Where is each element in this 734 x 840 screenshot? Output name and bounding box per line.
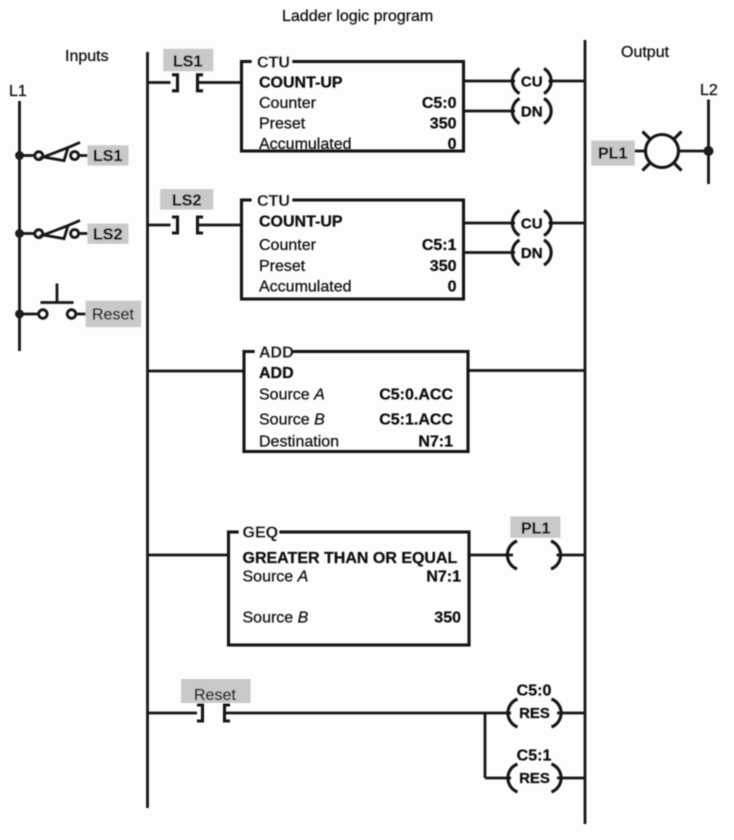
- coil RES C5:0: [508, 699, 561, 727]
- svg-text:L2: L2: [700, 82, 718, 99]
- wire rung1 left: [148, 81, 171, 84]
- label PL1 (output): [591, 141, 635, 166]
- svg-text:CU: CU: [521, 216, 543, 233]
- node Reset junction: [15, 310, 24, 319]
- wire block to CU coil: [464, 80, 516, 83]
- svg-text:Output: Output: [621, 44, 670, 61]
- svg-text:350: 350: [430, 116, 457, 133]
- label Reset (input): [86, 301, 142, 328]
- wire rung3 right: [468, 369, 585, 372]
- right ladder rail: [584, 40, 587, 824]
- svg-text:Inputs: Inputs: [65, 48, 109, 65]
- svg-text:LS1: LS1: [93, 148, 122, 165]
- wire PL1 coil to rail: [557, 554, 586, 557]
- svg-text:RES: RES: [519, 705, 550, 722]
- coil DN (rung1): [512, 99, 551, 124]
- wire rung1 to block: [198, 81, 242, 84]
- wire rung2 to block: [198, 224, 242, 227]
- node LS1 junction: [15, 151, 24, 160]
- wire branch vertical: [484, 713, 487, 778]
- wire RES C5:1 to rail: [557, 777, 585, 780]
- wire rung5 left: [148, 712, 198, 715]
- counter block CTU C5:0: [242, 54, 464, 153]
- contact LS2: [172, 217, 203, 233]
- svg-text:Counter: Counter: [259, 237, 317, 254]
- svg-text:PL1: PL1: [598, 146, 627, 163]
- limit switch LS1: [22, 142, 88, 160]
- svg-text:Source A: Source A: [259, 387, 325, 404]
- node L2 junction: [704, 146, 714, 156]
- svg-text:L1: L1: [9, 83, 27, 100]
- coil PL1: [507, 541, 560, 569]
- wire branch to RES C5:1: [485, 777, 511, 780]
- svg-text:CTU: CTU: [257, 55, 290, 72]
- coil CU (rung1): [512, 69, 551, 94]
- wire block to CU coil rung2: [464, 222, 516, 225]
- svg-text:Accumulated: Accumulated: [259, 136, 352, 153]
- svg-text:C5:1: C5:1: [517, 748, 552, 765]
- math block ADD: [244, 344, 468, 452]
- svg-text:350: 350: [430, 258, 457, 275]
- coil DN (rung2): [512, 240, 551, 265]
- svg-text:Accumulated: Accumulated: [259, 279, 352, 296]
- wire rung3 left: [148, 370, 245, 373]
- wire CU coil to rail rung2: [549, 222, 586, 225]
- svg-text:ADD: ADD: [259, 365, 294, 382]
- svg-text:N7:1: N7:1: [418, 434, 453, 451]
- wire block to DN coil rung2: [464, 251, 516, 254]
- svg-text:C5:0: C5:0: [517, 683, 552, 700]
- svg-text:LS2: LS2: [172, 193, 201, 210]
- svg-text:Source A: Source A: [243, 569, 309, 586]
- label LS1 (input): [88, 145, 129, 165]
- wire RES C5:0 to rail: [557, 712, 585, 715]
- svg-text:Ladder logic program: Ladder logic program: [282, 8, 433, 25]
- svg-text:COUNT-UP: COUNT-UP: [259, 214, 343, 231]
- svg-text:Preset: Preset: [259, 258, 306, 275]
- wire rung4 left: [148, 554, 229, 557]
- counter block CTU C5:1: [242, 193, 464, 299]
- svg-text:Preset: Preset: [259, 116, 306, 133]
- svg-text:Source B: Source B: [259, 412, 325, 429]
- coil RES C5:1: [508, 764, 561, 792]
- svg-text:RES: RES: [519, 770, 550, 787]
- svg-text:CU: CU: [521, 74, 543, 91]
- svg-text:N7:1: N7:1: [426, 569, 461, 586]
- coil CU (rung2): [512, 211, 551, 236]
- svg-text:COUNT-UP: COUNT-UP: [259, 75, 343, 92]
- L2 supply rail: [707, 100, 710, 185]
- svg-text:PL1: PL1: [521, 521, 550, 538]
- svg-text:350: 350: [434, 610, 461, 627]
- svg-text:Source B: Source B: [243, 610, 309, 627]
- svg-text:Destination: Destination: [259, 434, 339, 451]
- svg-text:Counter: Counter: [259, 95, 317, 112]
- svg-text:Reset: Reset: [92, 307, 134, 324]
- svg-text:Reset: Reset: [194, 687, 236, 704]
- svg-text:C5:1.ACC: C5:1.ACC: [379, 412, 453, 429]
- label Reset (rung5): [181, 679, 251, 704]
- svg-text:LS1: LS1: [173, 54, 202, 71]
- svg-text:GREATER THAN OR EQUAL: GREATER THAN OR EQUAL: [243, 550, 458, 567]
- svg-text:ADD: ADD: [259, 345, 294, 362]
- svg-text:C5:1: C5:1: [422, 237, 457, 254]
- wire rung2 left: [148, 224, 171, 227]
- node LS2 junction: [15, 229, 24, 238]
- wire rung5 to RES coil: [225, 712, 512, 715]
- svg-text:0: 0: [448, 279, 457, 296]
- label LS1 (rung1): [163, 49, 213, 72]
- wire block to PL1 coil: [469, 554, 513, 557]
- compare block GEQ: [229, 525, 470, 646]
- svg-text:0: 0: [448, 136, 457, 153]
- label LS2 (rung2): [160, 189, 213, 210]
- left ladder rail: [146, 52, 149, 808]
- wire CU coil to rail: [549, 80, 586, 83]
- wire block to DN coil: [464, 110, 516, 113]
- svg-text:DN: DN: [521, 245, 543, 262]
- contact LS1: [172, 75, 203, 91]
- label LS2 (input): [88, 224, 129, 244]
- contact Reset: [197, 705, 230, 721]
- svg-text:DN: DN: [521, 104, 543, 121]
- label PL1 (rung4): [510, 517, 560, 538]
- limit switch LS2: [22, 220, 88, 238]
- L1 supply rail: [18, 101, 21, 351]
- svg-text:CTU: CTU: [257, 193, 290, 210]
- svg-text:C5:0: C5:0: [422, 95, 457, 112]
- svg-text:LS2: LS2: [93, 227, 122, 244]
- svg-text:GEQ: GEQ: [243, 525, 279, 542]
- pilot light PL1: [635, 132, 709, 171]
- pushbutton Reset: [22, 284, 86, 319]
- svg-text:C5:0.ACC: C5:0.ACC: [379, 387, 453, 404]
